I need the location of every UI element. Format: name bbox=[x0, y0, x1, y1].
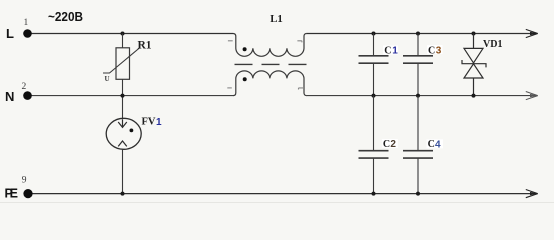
svg-text:1: 1 bbox=[392, 45, 398, 56]
terminal N bbox=[23, 91, 32, 100]
inductor L1 top winding bbox=[233, 34, 307, 57]
varistor diagonal with foot bbox=[103, 48, 140, 74]
wire R1 bottom lead down to FV1 bbox=[122, 79, 124, 118]
svg-text:C: C bbox=[428, 139, 435, 150]
node: PE / C4 junction bbox=[416, 192, 420, 196]
inductor L1 core dashes bbox=[235, 63, 307, 65]
capacitor C4 top lead bbox=[417, 96, 419, 151]
svg-text:1: 1 bbox=[156, 117, 162, 128]
wire FV1 bottom lead bbox=[122, 149, 124, 193]
L1 pin label top-left bbox=[228, 40, 233, 42]
svg-text:U: U bbox=[105, 75, 110, 83]
L1 bottom polarity dot bbox=[243, 77, 247, 81]
capacitor C2 top lead bbox=[373, 96, 375, 151]
diode VD1 top lead bbox=[473, 34, 475, 49]
terminal L bbox=[23, 29, 32, 38]
svg-text:C: C bbox=[384, 45, 391, 56]
node: N / branch junction bbox=[121, 94, 125, 98]
capacitor C1 bottom lead bbox=[373, 64, 375, 96]
arrester FV1 circle bbox=[106, 118, 141, 149]
FV1 top electrode arrow bbox=[118, 119, 127, 127]
faint window edge line bbox=[0, 202, 554, 204]
wire N rail right segment bbox=[307, 95, 536, 97]
capacitor C2 plates bbox=[359, 151, 389, 158]
capacitor C4 bottom lead bbox=[417, 159, 419, 194]
capacitor C3 plates bbox=[403, 56, 433, 63]
wire L rail left segment bbox=[28, 33, 234, 35]
arrow at L rail end bbox=[526, 29, 538, 37]
svg-text:C: C bbox=[428, 45, 435, 56]
svg-text:N: N bbox=[5, 89, 14, 104]
label C2 bbox=[382, 139, 398, 148]
label C1 bbox=[383, 46, 398, 55]
L1 pin label bottom-left bbox=[227, 87, 232, 89]
svg-text:1: 1 bbox=[24, 18, 29, 28]
capacitor C2 bottom lead bbox=[373, 159, 375, 194]
L1 pin label top-right bbox=[297, 41, 302, 43]
node: N / C3-C4 junction bbox=[416, 94, 420, 98]
svg-text:9: 9 bbox=[22, 175, 27, 185]
arrow at N rail end bbox=[526, 92, 538, 100]
svg-text:L: L bbox=[6, 26, 14, 41]
svg-text:FV: FV bbox=[142, 117, 156, 128]
diode VD1 top triangle bbox=[464, 48, 483, 63]
svg-text:L1: L1 bbox=[270, 13, 283, 25]
svg-text:2: 2 bbox=[390, 139, 396, 150]
wire L rail right segment bbox=[307, 33, 536, 35]
FV1 bottom electrode arrow bbox=[118, 141, 127, 146]
node: L / VD1 junction bbox=[472, 32, 476, 36]
resistor R1 (varistor) body bbox=[116, 48, 130, 80]
label C3 bbox=[427, 45, 443, 54]
node: L / C1 junction bbox=[372, 32, 376, 36]
diode VD1 cathode bar with wings bbox=[462, 60, 486, 67]
diode VD1 bottom lead bbox=[473, 78, 475, 96]
node: N / C1-C2 junction bbox=[372, 94, 376, 98]
capacitor C3 bottom lead bbox=[417, 64, 419, 96]
wire PE rail bbox=[28, 193, 536, 195]
svg-text:4: 4 bbox=[435, 139, 441, 150]
wire N rail left segment bbox=[28, 95, 234, 97]
node: PE / C2 junction bbox=[372, 192, 376, 196]
inductor L1 bottom winding bbox=[233, 71, 307, 96]
node: L / C3 junction bbox=[416, 32, 420, 36]
svg-text:~220В: ~220В bbox=[48, 9, 83, 24]
svg-text:C: C bbox=[383, 139, 390, 150]
capacitor C1 top lead bbox=[373, 34, 375, 56]
terminal PE bbox=[23, 189, 32, 198]
capacitor C4 plates bbox=[403, 151, 433, 158]
L1 top polarity dot bbox=[243, 47, 247, 51]
node: PE / branch junction bbox=[121, 192, 125, 196]
node: L / R1 branch junction bbox=[121, 32, 125, 36]
diode VD1 bottom triangle bbox=[464, 64, 483, 78]
arrow at PE rail end bbox=[526, 190, 538, 198]
capacitor C3 top lead bbox=[417, 34, 419, 56]
svg-text:R1: R1 bbox=[138, 40, 152, 52]
svg-text:2: 2 bbox=[22, 82, 27, 92]
wire R1 top lead bbox=[122, 34, 124, 48]
svg-text:PE: PE bbox=[5, 187, 19, 201]
node: N / VD1 junction bbox=[472, 94, 476, 98]
svg-text:VD1: VD1 bbox=[483, 39, 502, 50]
capacitor C1 plates bbox=[359, 56, 389, 63]
svg-text:3: 3 bbox=[436, 45, 442, 56]
label C4 bbox=[427, 139, 444, 148]
L1 pin label bottom-right bbox=[299, 88, 304, 90]
FV1 gas dot bbox=[130, 129, 134, 133]
